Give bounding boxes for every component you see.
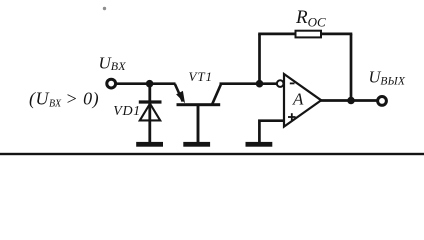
svg-text:A: A [292,89,304,108]
emitter arrow [176,91,185,103]
wire: feedback vertical left [258,34,261,84]
plus sign [288,113,296,121]
bottom rule [0,153,424,155]
transistor VT1 [175,84,221,106]
base bar [177,103,221,106]
wire: feedback vertical right [350,34,353,101]
ground (diode) [136,142,163,147]
svg-text:VT1: VT1 [189,69,213,84]
output terminal [378,97,387,106]
resistor Roc [296,31,322,38]
op-amp A [284,74,321,127]
wire: base to ground [197,106,200,143]
wire: noninverting input [259,121,284,143]
svg-text:(UВХ > 0): (UВХ > 0) [29,89,99,110]
node: feedback tap [256,80,264,88]
wire: input to emitter [117,82,176,85]
wire: junction down through diode to ground [148,84,151,143]
node: output junction [347,97,355,105]
inverting input bubble [277,80,284,87]
speck artifact [103,7,106,10]
wire: feedback top left [258,33,296,36]
input terminal [107,79,116,88]
ground (op-amp) [246,142,273,147]
ground (transistor) [183,142,210,147]
wire: output [321,99,378,102]
collector lead [212,84,221,104]
wire: collector to op-amp [220,82,277,85]
minus sign [290,82,295,84]
svg-text:VD1: VD1 [113,104,140,119]
wire: feedback top right [321,33,352,36]
diode VD1 [139,102,162,120]
emitter lead [175,84,183,102]
node: input junction [146,80,154,88]
